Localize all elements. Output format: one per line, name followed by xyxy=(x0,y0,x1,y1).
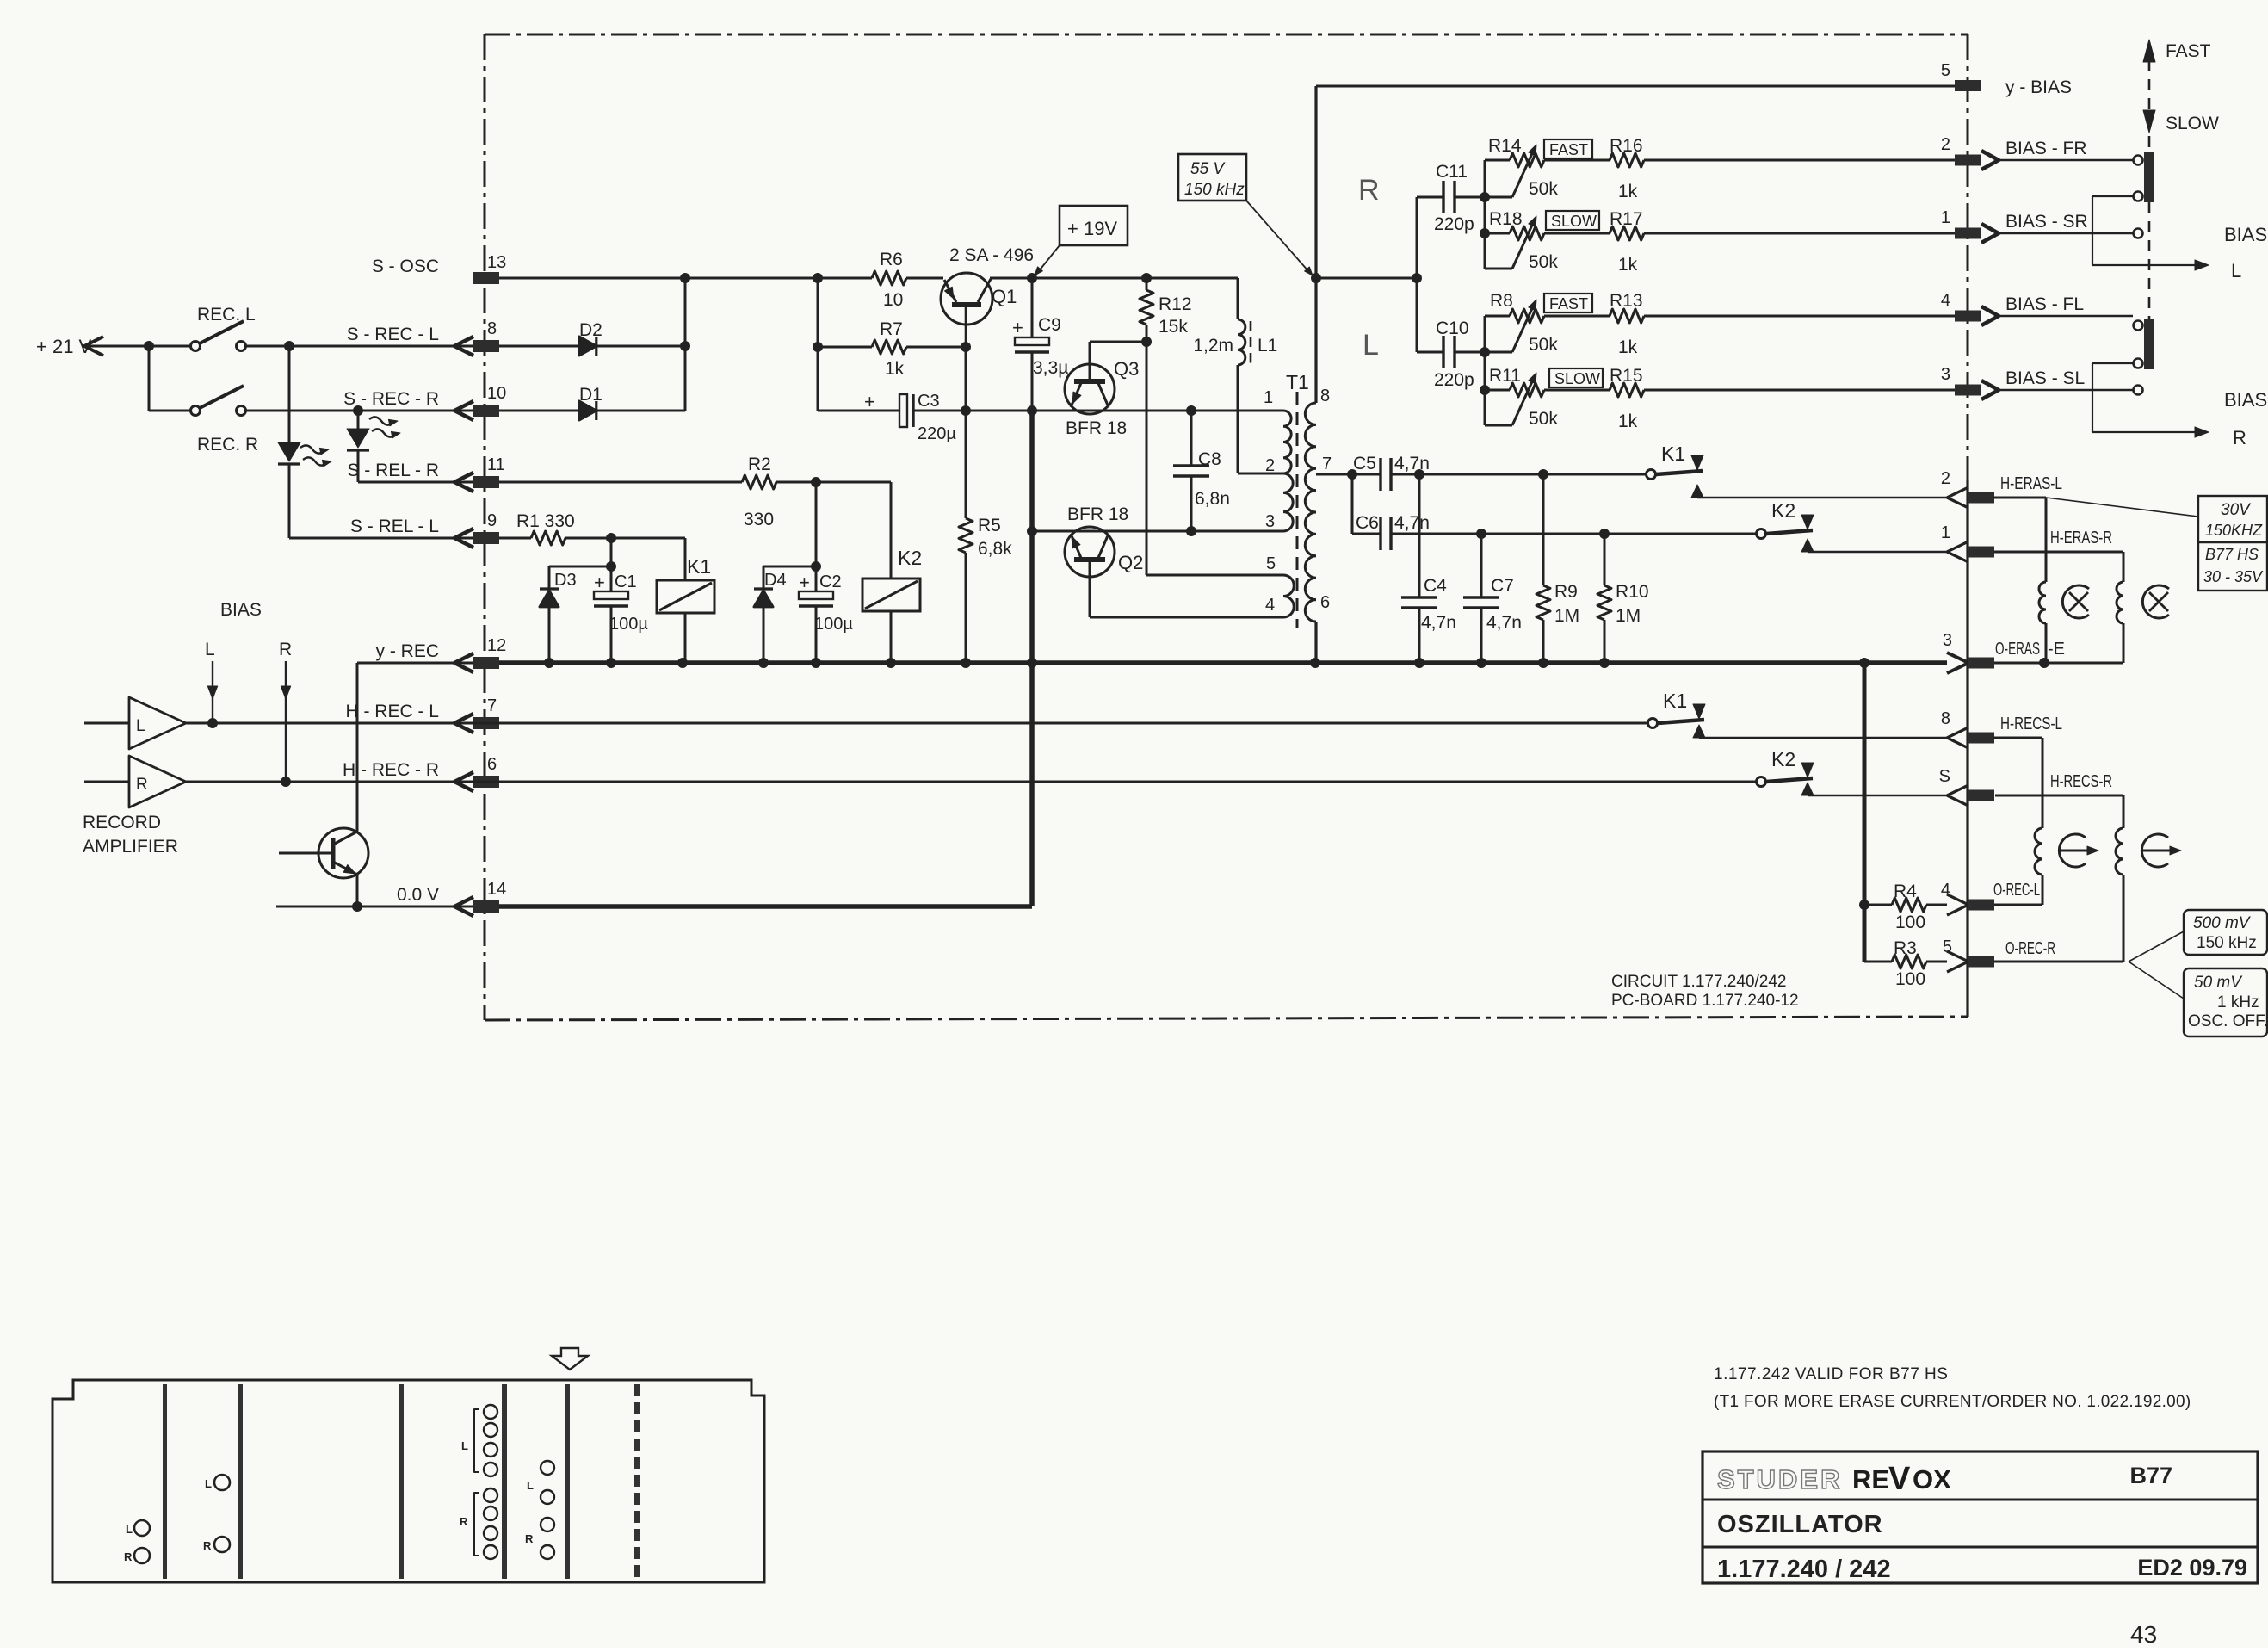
callout 30V 150kHz box xyxy=(2046,496,2267,591)
svg-text:1M: 1M xyxy=(1554,606,1579,626)
label RECORD AMPLIFIER xyxy=(83,813,178,857)
svg-text:+: + xyxy=(594,572,605,593)
svg-text:R7: R7 xyxy=(880,319,903,339)
svg-text:1k: 1k xyxy=(1618,182,1638,201)
svg-text:11: 11 xyxy=(487,455,505,474)
svg-text:T1: T1 xyxy=(1286,371,1309,393)
svg-text:D3: D3 xyxy=(554,571,577,590)
svg-text:6: 6 xyxy=(487,755,497,774)
pin 4 BIAS-FL xyxy=(1941,291,2084,325)
svg-text:L: L xyxy=(126,1523,133,1536)
svg-text:C5: C5 xyxy=(1353,454,1376,473)
svg-text:O-REC-L: O-REC-L xyxy=(1993,881,2040,900)
wire BIAS-FR to selector xyxy=(1999,159,2133,161)
svg-text:S - REC - L: S - REC - L xyxy=(347,325,439,344)
svg-text:BIAS: BIAS xyxy=(2224,389,2267,411)
erase head symbol R xyxy=(2142,585,2169,618)
pin S H-RECS-R xyxy=(1939,767,2112,806)
capacitor C10 220p xyxy=(1417,319,1485,390)
svg-text:1M: 1M xyxy=(1616,606,1641,626)
svg-text:220p: 220p xyxy=(1434,370,1474,390)
pin 7 H-REC-L xyxy=(345,696,499,733)
wire O-REC-L to head xyxy=(1994,904,2042,906)
transistor record amplifier xyxy=(279,828,368,878)
svg-text:R: R xyxy=(1358,174,1380,207)
head mounting bar 2 xyxy=(238,1384,243,1579)
svg-text:150 kHz: 150 kHz xyxy=(2197,934,2257,952)
erase head winding R xyxy=(2117,582,2123,623)
svg-text:+: + xyxy=(1012,317,1023,338)
svg-text:AMPLIFIER: AMPLIFIER xyxy=(83,837,178,857)
svg-text:CIRCUIT 1.177.240/242: CIRCUIT 1.177.240/242 xyxy=(1611,973,1787,991)
svg-text:5: 5 xyxy=(1943,937,1952,956)
svg-text:K1: K1 xyxy=(1663,690,1687,712)
relay contact K2 (record sync) xyxy=(1757,748,1948,795)
svg-text:L1: L1 xyxy=(1258,336,1277,356)
pin 1 BIAS-SR xyxy=(1941,208,2088,243)
pin 14 0.0V xyxy=(397,880,506,916)
svg-text:R16: R16 xyxy=(1610,136,1643,156)
svg-text:1: 1 xyxy=(1941,208,1950,227)
svg-text:1.177.242 VALID FOR B77 HS: 1.177.242 VALID FOR B77 HS xyxy=(1714,1365,1948,1383)
svg-text:55 V: 55 V xyxy=(1190,160,1226,178)
svg-text:BFR 18: BFR 18 xyxy=(1067,504,1128,524)
pin 5 y-BIAS xyxy=(1941,61,2072,97)
pin 8 H-RECS-L xyxy=(1941,709,2062,748)
wire O-ERAS bus down to R4/R3 (thick) xyxy=(1863,663,1867,962)
svg-text:BIAS: BIAS xyxy=(2224,224,2267,245)
svg-text:500 mV: 500 mV xyxy=(2193,914,2252,932)
svg-text:RE: RE xyxy=(1852,1464,1889,1494)
svg-text:100µ: 100µ xyxy=(609,615,648,634)
svg-text:5: 5 xyxy=(1266,554,1276,573)
svg-text:30 - 35V: 30 - 35V xyxy=(2203,568,2264,585)
wire erase winding L to O-ERAS xyxy=(2045,623,2048,663)
transistor Q2 BFR18 xyxy=(1065,504,1143,617)
svg-text:(T1 FOR MORE ERASE CURRENT: (T1 FOR MORE ERASE CURRENT/ORDER NO. 1.0… xyxy=(1714,1393,2191,1411)
svg-text:150 kHz: 150 kHz xyxy=(1184,181,1245,199)
capacitor C2 100u xyxy=(799,482,853,663)
erase head symbol L xyxy=(2062,585,2089,618)
capacitor C5 4.7n xyxy=(1316,454,1647,491)
svg-text:C11: C11 xyxy=(1436,162,1468,182)
wire H-ERAS-L to erase head xyxy=(1993,498,2046,582)
wire record winding L to O-REC-L xyxy=(2042,875,2044,905)
svg-text:R17: R17 xyxy=(1610,209,1643,229)
svg-text:50k: 50k xyxy=(1529,409,1558,429)
svg-text:1.177.240 / 242: 1.177.240 / 242 xyxy=(1717,1556,1891,1583)
amplifier R triangle xyxy=(84,756,186,807)
svg-text:L: L xyxy=(205,640,215,659)
svg-text:C1: C1 xyxy=(615,572,637,591)
resistor R3 100 xyxy=(1864,938,1947,989)
switch REC.L xyxy=(191,305,256,351)
wire BIAS-SL to selector xyxy=(1999,389,2133,391)
svg-text:K1: K1 xyxy=(687,555,711,578)
svg-text:100: 100 xyxy=(1895,913,1925,932)
svg-text:2 SA - 496: 2 SA - 496 xyxy=(949,245,1034,265)
speed select arrows FAST/SLOW xyxy=(2143,40,2219,319)
svg-text:50k: 50k xyxy=(1529,179,1558,199)
head position marker arrow xyxy=(552,1348,588,1370)
wire S-REL-R to pin 11 xyxy=(358,481,473,484)
head mounting bar 4 xyxy=(502,1384,507,1579)
svg-text:V: V xyxy=(1888,1461,1911,1497)
potentiometer R11 50k SLOW xyxy=(1480,347,1603,429)
wire bias network feed xyxy=(1412,197,1422,352)
svg-text:8: 8 xyxy=(487,319,497,338)
svg-text:R11: R11 xyxy=(1489,366,1521,386)
screw holes group 2 xyxy=(203,1475,230,1552)
svg-text:1: 1 xyxy=(1941,523,1950,542)
svg-text:3: 3 xyxy=(1941,365,1950,384)
wire S-OSC net xyxy=(499,273,1238,283)
svg-text:FAST: FAST xyxy=(1549,295,1588,312)
potentiometer R14 50k FAST xyxy=(1485,136,1592,199)
resistor R4 100 xyxy=(1859,882,1947,932)
wire S-REL-L to pin 9 xyxy=(289,537,473,540)
svg-text:S - REL - R: S - REL - R xyxy=(347,461,439,480)
head mounting bar 3 xyxy=(399,1384,404,1579)
svg-text:C7: C7 xyxy=(1491,576,1514,596)
head contact pins R column xyxy=(460,1488,497,1559)
head contact pins L column xyxy=(461,1405,497,1476)
relay coil K2 xyxy=(862,482,922,663)
svg-text:4,7n: 4,7n xyxy=(1394,454,1430,473)
wire BIAS L output xyxy=(2092,196,2267,282)
svg-text:R8: R8 xyxy=(1490,291,1513,311)
svg-text:B77: B77 xyxy=(2129,1463,2172,1488)
bias injection arrow L xyxy=(207,661,218,728)
erase head winding L xyxy=(2039,582,2046,623)
svg-text:R14: R14 xyxy=(1488,136,1522,156)
svg-text:12: 12 xyxy=(487,636,506,655)
svg-text:OSZILLATOR: OSZILLATOR xyxy=(1717,1511,1883,1538)
svg-text:4: 4 xyxy=(1265,596,1275,615)
pin 4 O-REC-L xyxy=(1941,881,2040,915)
wire Q2 line (T1 pin 3) xyxy=(1032,526,1283,536)
resistor R5 6.8k xyxy=(959,411,1012,663)
svg-text:RECORD: RECORD xyxy=(83,813,161,832)
svg-text:Q3: Q3 xyxy=(1114,358,1139,380)
svg-text:S - REL - L: S - REL - L xyxy=(350,517,439,536)
svg-text:R18: R18 xyxy=(1489,209,1523,229)
svg-text:STUDER: STUDER xyxy=(1717,1464,1842,1494)
svg-text:4: 4 xyxy=(1941,881,1950,900)
pin 8 S-REC-L xyxy=(347,319,499,356)
wire H-ERAS-R to erase head xyxy=(1994,552,2123,582)
svg-text:8: 8 xyxy=(1320,387,1330,405)
pin 3 O-ERAS-E xyxy=(1943,631,2065,673)
svg-text:1k: 1k xyxy=(885,359,905,379)
svg-text:K2: K2 xyxy=(1771,748,1795,770)
resistor R10 1M xyxy=(1597,534,1649,663)
svg-text:6,8k: 6,8k xyxy=(978,539,1012,559)
head assembly drawing outline xyxy=(53,1380,764,1582)
capacitor C4 4.7n xyxy=(1401,474,1456,663)
svg-text:C2: C2 xyxy=(819,572,842,591)
pin 9 S-REL-L xyxy=(350,511,499,548)
svg-text:1k: 1k xyxy=(1618,337,1638,357)
label BIAS L R xyxy=(205,600,292,659)
svg-text:+ 21 V: + 21 V xyxy=(36,336,92,357)
power +21V supply arrow xyxy=(36,336,191,357)
pin 13 S-OSC xyxy=(372,253,506,284)
svg-text:PC-BOARD 1.177.240-12: PC-BOARD 1.177.240-12 xyxy=(1611,992,1799,1010)
svg-text:13: 13 xyxy=(487,253,506,272)
svg-text:K2: K2 xyxy=(898,547,922,569)
svg-text:10: 10 xyxy=(487,384,506,403)
svg-text:R: R xyxy=(124,1550,133,1563)
wire vertical S-OSC to D2/D1 xyxy=(680,278,690,411)
capacitor C9 3.3u xyxy=(1012,278,1068,411)
wire O-REC-R to head xyxy=(1994,961,2123,963)
svg-text:ED2 09.79: ED2 09.79 xyxy=(2137,1555,2247,1581)
label CIRCUIT / PC-BOARD xyxy=(1611,973,1799,1010)
svg-text:BFR 18: BFR 18 xyxy=(1066,418,1127,438)
wire Q1 base to R5/C3 xyxy=(961,342,971,416)
svg-text:7: 7 xyxy=(1322,455,1332,473)
svg-text:R13: R13 xyxy=(1610,291,1643,311)
wire BIAS-FL to selector xyxy=(1999,315,2133,317)
svg-text:+: + xyxy=(799,572,810,593)
capacitor C7 4.7n xyxy=(1463,534,1522,663)
head mounting bar 1 xyxy=(163,1384,167,1579)
pin 10 S-REC-R xyxy=(343,384,506,420)
pin 2 H-ERAS-L xyxy=(1941,469,2062,508)
diode D2 xyxy=(499,320,685,356)
svg-text:2: 2 xyxy=(1941,135,1950,154)
svg-text:S: S xyxy=(1939,767,1950,786)
svg-text:H-RECS-L: H-RECS-L xyxy=(2000,715,2062,733)
svg-text:REC. R: REC. R xyxy=(197,435,258,455)
record head winding L xyxy=(2035,828,2042,875)
relay contact K1 (erase) xyxy=(1647,442,1948,498)
bias selector switch R xyxy=(2134,319,2155,395)
pin 6 H-REC-R xyxy=(343,755,499,791)
svg-text:R: R xyxy=(2233,427,2246,449)
resistor R2 330 xyxy=(499,455,891,529)
svg-text:50 mV: 50 mV xyxy=(2194,974,2243,992)
svg-text:R5: R5 xyxy=(978,516,1001,535)
wire H-REC-R line xyxy=(186,781,1756,783)
svg-text:S - REC - R: S - REC - R xyxy=(343,389,439,409)
svg-text:150KHZ: 150KHZ xyxy=(2205,522,2263,539)
pin 2 BIAS-FR xyxy=(1941,135,2087,170)
LED record indicator L xyxy=(278,346,331,538)
relay contact K1 (record sync) xyxy=(1648,690,1948,738)
wire H-RECS-L to record head xyxy=(1993,738,2042,828)
svg-text:4,7n: 4,7n xyxy=(1394,513,1430,533)
wire record winding R to O-REC-R xyxy=(2123,875,2125,962)
wire 0-V return bus vertical (thick) xyxy=(1027,405,1037,906)
resistor R7 1k xyxy=(818,319,966,379)
wire oscillator node to bias network xyxy=(1316,277,1417,280)
svg-text:1 kHz: 1 kHz xyxy=(2217,993,2259,1012)
head contact pins second column xyxy=(525,1461,554,1559)
wire T1 pin 6 to bus xyxy=(1314,622,1317,663)
wire S-REC-L from switch to pin 8 xyxy=(245,341,473,351)
transformer T1 xyxy=(1238,371,1332,628)
capacitor C8 6.8n xyxy=(1173,411,1230,531)
switch REC.R xyxy=(191,386,259,455)
svg-text:BIAS - SR: BIAS - SR xyxy=(2005,212,2088,232)
resistor R9 1M xyxy=(1536,474,1579,663)
wire +21V feed xyxy=(144,341,191,411)
inductor L1 1.2m xyxy=(1193,278,1277,473)
svg-text:D4: D4 xyxy=(764,571,787,590)
svg-text:9: 9 xyxy=(487,511,497,530)
svg-text:2: 2 xyxy=(1941,469,1950,488)
record head symbol L xyxy=(2059,834,2098,867)
svg-text:3: 3 xyxy=(1943,631,1952,650)
diode D4 xyxy=(754,566,816,663)
svg-text:SLOW: SLOW xyxy=(1551,213,1597,230)
LED record indicator R xyxy=(347,411,400,482)
svg-text:H-ERAS-L: H-ERAS-L xyxy=(2000,474,2062,493)
wire H-REC-L line xyxy=(186,722,1647,725)
svg-text:OSC. OFF.: OSC. OFF. xyxy=(2188,1012,2268,1030)
svg-text:1k: 1k xyxy=(1618,411,1638,431)
svg-text:8: 8 xyxy=(1941,709,1950,728)
svg-text:+: + xyxy=(864,391,875,412)
callout 500mV 150kHz box xyxy=(2129,910,2267,962)
svg-text:H - REC - L: H - REC - L xyxy=(345,702,439,721)
wire O-ERAS-E to windings xyxy=(1994,623,2123,668)
record head winding R xyxy=(2116,828,2123,875)
svg-text:REC. L: REC. L xyxy=(197,305,256,325)
head mounting bar dashed xyxy=(634,1384,640,1579)
callout 50mV 1kHz OSC.OFF box xyxy=(2129,962,2268,1036)
svg-text:BIAS: BIAS xyxy=(220,600,262,620)
svg-text:OX: OX xyxy=(1913,1464,1951,1494)
bias selector switch L xyxy=(2134,152,2155,238)
svg-text:R: R xyxy=(525,1532,534,1545)
pin 11 S-REL-R xyxy=(347,455,504,492)
svg-text:FAST: FAST xyxy=(2166,41,2211,61)
svg-text:0.0 V: 0.0 V xyxy=(397,885,439,905)
svg-text:3,3µ: 3,3µ xyxy=(1033,358,1068,378)
potentiometer R18 50k SLOW xyxy=(1480,192,1599,272)
svg-text:7: 7 xyxy=(487,696,497,715)
svg-text:R15: R15 xyxy=(1610,366,1643,386)
svg-text:C3: C3 xyxy=(918,392,940,411)
svg-text:O-REC-R: O-REC-R xyxy=(2005,939,2055,958)
head mounting bar 5 xyxy=(565,1384,570,1579)
capacitor C3 220u xyxy=(818,391,966,443)
svg-text:4,7n: 4,7n xyxy=(1421,613,1456,633)
svg-text:4,7n: 4,7n xyxy=(1486,613,1522,633)
resistor R1 330 xyxy=(499,511,685,545)
svg-text:BIAS - FL: BIAS - FL xyxy=(2005,294,2084,314)
wire y-BIAS line xyxy=(1316,85,1955,88)
svg-text:3: 3 xyxy=(1265,512,1275,531)
pin 12 y-REC xyxy=(376,636,507,672)
transistor Q1 2SA-496 xyxy=(941,245,1034,347)
svg-text:220p: 220p xyxy=(1434,214,1474,234)
relay contact K2 (erase) xyxy=(1757,499,1948,552)
svg-text:L: L xyxy=(136,717,145,735)
svg-text:B77 HS: B77 HS xyxy=(2205,546,2259,563)
svg-text:5: 5 xyxy=(1941,61,1950,80)
bias injection arrow R xyxy=(281,661,291,787)
svg-text:FAST: FAST xyxy=(1549,141,1588,158)
svg-text:+ 19V: + 19V xyxy=(1067,218,1117,239)
svg-text:R9: R9 xyxy=(1554,582,1578,602)
svg-text:330: 330 xyxy=(744,510,774,529)
amplifier L triangle xyxy=(84,697,186,749)
svg-text:6,8n: 6,8n xyxy=(1195,489,1230,509)
resistor R12 15k xyxy=(1140,278,1192,342)
wire Q2 base to T1 pin 4 xyxy=(1090,616,1283,619)
svg-text:BIAS - SL: BIAS - SL xyxy=(2005,368,2085,388)
diode D3 xyxy=(540,566,611,663)
transistor Q3 BFR18 xyxy=(1065,342,1139,438)
svg-text:C4: C4 xyxy=(1424,576,1447,596)
svg-text:100µ: 100µ xyxy=(814,615,853,634)
resistor R13 1k xyxy=(1544,291,1955,357)
wire R12 / Q3 base / T1 pin5 xyxy=(1090,337,1283,575)
resistor R17 1k xyxy=(1544,209,1955,275)
svg-text:R2: R2 xyxy=(748,455,771,474)
record head symbol R xyxy=(2141,834,2181,867)
pin 5 O-REC-R xyxy=(1943,937,2055,972)
svg-text:50k: 50k xyxy=(1529,252,1558,272)
svg-text:L: L xyxy=(2231,260,2241,282)
wire BIAS-SR to selector xyxy=(1999,232,2133,234)
svg-text:y - REC: y - REC xyxy=(376,641,440,661)
wire y-REC to collector xyxy=(356,663,359,832)
svg-text:R: R xyxy=(203,1539,212,1552)
wire emitter to 0V xyxy=(352,875,362,912)
svg-text:4: 4 xyxy=(1941,291,1950,310)
callout +19V xyxy=(1035,206,1128,275)
svg-text:H-RECS-R: H-RECS-R xyxy=(2050,772,2112,791)
svg-text:K1: K1 xyxy=(1661,442,1685,465)
svg-text:6: 6 xyxy=(1320,593,1330,612)
svg-text:L: L xyxy=(1363,329,1379,362)
diode D1 xyxy=(499,385,685,420)
svg-text:R12: R12 xyxy=(1159,294,1192,314)
wire S-REC-R from switch to pin 10 xyxy=(245,405,473,416)
svg-text:50k: 50k xyxy=(1529,335,1558,355)
svg-text:1: 1 xyxy=(1264,388,1273,407)
svg-text:43: 43 xyxy=(2130,1621,2157,1648)
svg-text:C9: C9 xyxy=(1038,315,1061,335)
pin 1 H-ERAS-R xyxy=(1941,523,2112,562)
svg-text:C10: C10 xyxy=(1436,319,1469,338)
svg-text:100: 100 xyxy=(1895,969,1925,989)
svg-text:Q1: Q1 xyxy=(992,286,1017,307)
svg-text:H-ERAS-R: H-ERAS-R xyxy=(2050,529,2112,548)
svg-text:1k: 1k xyxy=(1618,255,1638,275)
svg-text:-E: -E xyxy=(2048,640,2065,659)
svg-text:C6: C6 xyxy=(1356,513,1379,533)
svg-text:220µ: 220µ xyxy=(918,424,956,443)
capacitor C11 220p xyxy=(1417,162,1485,234)
wire Q3 emitter/collector line (C9 to T1 pin 1) xyxy=(913,405,1283,416)
resistor R6 10 xyxy=(872,250,906,310)
wire BIAS R output xyxy=(2092,363,2267,449)
svg-text:R10: R10 xyxy=(1616,582,1649,602)
callout 55V 150kHz xyxy=(1178,154,1313,275)
potentiometer R8 50k FAST xyxy=(1485,291,1592,355)
svg-text:L: L xyxy=(205,1477,212,1490)
wire H-RECS-R to record head xyxy=(1995,795,2123,828)
svg-text:BIAS - FR: BIAS - FR xyxy=(2005,139,2087,158)
svg-text:30V: 30V xyxy=(2221,501,2252,519)
resistor R16 1k xyxy=(1544,136,1955,201)
